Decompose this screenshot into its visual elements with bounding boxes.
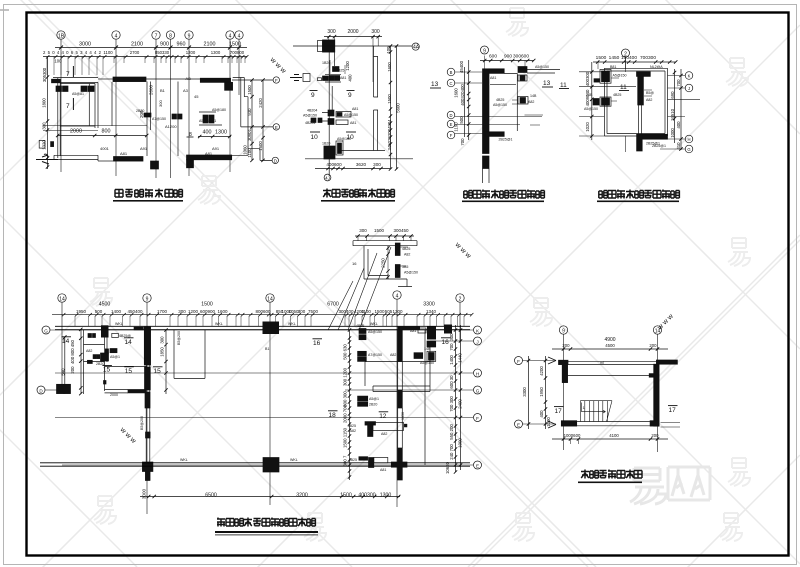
svg-text:K: K <box>688 74 691 79</box>
svg-text:300: 300 <box>158 100 163 107</box>
svg-text:D: D <box>449 113 452 118</box>
svg-text:A82: A82 <box>350 429 356 433</box>
dim line top D5 <box>52 314 472 316</box>
svg-text:14: 14 <box>655 328 661 334</box>
svg-text:2100: 2100 <box>131 42 143 48</box>
left wall D6 <box>562 364 567 382</box>
svg-text:400: 400 <box>348 74 353 82</box>
top-right step outline D1 <box>233 78 248 127</box>
right bubble col D4 <box>660 72 693 153</box>
label 14 right D5 <box>124 338 134 346</box>
svg-text:550 200: 550 200 <box>449 424 454 440</box>
svg-text:B1: B1 <box>160 88 166 93</box>
svg-text:A81: A81 <box>490 76 496 80</box>
svg-text:930: 930 <box>247 108 252 116</box>
svg-text:1440: 1440 <box>458 353 463 363</box>
bottom wall D6 <box>561 421 659 426</box>
svg-text:4: 4 <box>238 34 241 40</box>
svg-text:4B25: 4B25 <box>613 93 621 97</box>
left col blocks lower D5 <box>348 396 407 472</box>
C box D5det <box>364 246 390 279</box>
svg-text:1500: 1500 <box>247 85 252 95</box>
svg-text:WKL: WKL <box>215 322 223 326</box>
svg-text:WKL: WKL <box>370 322 378 326</box>
svg-text:10: 10 <box>311 134 319 141</box>
svg-text:400320400: 400320400 <box>460 84 465 106</box>
left bubbles D6 <box>515 357 557 429</box>
title: drawing 4 <box>597 190 679 203</box>
right room interior blocks D1 <box>172 108 226 125</box>
svg-text:4B25: 4B25 <box>349 458 357 462</box>
svg-text:6500: 6500 <box>205 493 217 499</box>
svg-text:1850: 1850 <box>160 347 165 357</box>
bottom dim D6 <box>552 433 668 444</box>
arrows at left wall D6 <box>548 357 556 428</box>
top-right blocks D3 <box>490 65 560 81</box>
svg-text:1400: 1400 <box>111 309 122 314</box>
svg-text:300: 300 <box>373 162 381 167</box>
svg-text:B1: B1 <box>265 347 269 351</box>
svg-text:11: 11 <box>620 84 627 91</box>
svg-text:4B25: 4B25 <box>402 247 410 251</box>
svg-text:A1200: A1200 <box>165 124 177 129</box>
svg-text:200: 200 <box>70 366 75 374</box>
row2 blocks D5 <box>358 347 436 365</box>
thin box D3 <box>490 73 517 131</box>
svg-text:400: 400 <box>676 121 681 129</box>
bottom line D2 <box>305 151 413 159</box>
left exterior wall D5 <box>81 330 84 394</box>
svg-text:1450: 1450 <box>609 55 620 61</box>
svg-text:A7@150: A7@150 <box>152 117 166 121</box>
label 10 right D2 <box>346 132 356 141</box>
mid block cluster D2 <box>303 107 358 125</box>
svg-text:2100: 2100 <box>204 42 216 48</box>
svg-text:E: E <box>450 122 453 127</box>
svg-text:A82: A82 <box>381 432 387 436</box>
svg-text:11: 11 <box>560 82 567 89</box>
svg-text:900: 900 <box>504 54 512 60</box>
svg-text:1500 1150: 1500 1150 <box>343 427 348 448</box>
svg-text:300 1200: 300 1200 <box>343 367 348 386</box>
axis bubbles top row D5 <box>58 291 464 303</box>
svg-text:4200: 4200 <box>539 366 544 376</box>
svg-text:6700: 6700 <box>327 302 339 308</box>
svg-text:G: G <box>687 147 690 152</box>
svg-text:4: 4 <box>229 34 232 40</box>
svg-text:1060: 1060 <box>243 145 248 155</box>
svg-text:900: 900 <box>160 42 169 48</box>
bottom dim labels D5 <box>140 488 400 499</box>
inner top line D6 <box>568 374 656 378</box>
right wall D6 <box>654 364 659 426</box>
dim stems D5 <box>75 316 464 327</box>
left dim col D3 <box>454 60 471 146</box>
detail columns D5det <box>395 243 418 278</box>
svg-text:700 300: 700 300 <box>449 396 454 412</box>
svg-text:B5@200: B5@200 <box>140 416 144 430</box>
right dim cols D5 <box>445 325 463 474</box>
inner thin box D5 <box>365 362 430 392</box>
left dim col D4 <box>585 62 594 140</box>
title: drawing 5 <box>215 518 318 536</box>
svg-text:4B25: 4B25 <box>336 69 344 73</box>
svg-text:A91: A91 <box>140 146 148 151</box>
svg-text:7: 7 <box>66 71 70 78</box>
left bubble row4 D5 <box>37 386 60 394</box>
svg-text:1500: 1500 <box>596 55 607 61</box>
left exterior wall D1 <box>58 78 60 158</box>
bottom-left thin outline D1 <box>54 155 98 161</box>
section mark 7 lower D1 <box>66 98 73 110</box>
svg-text:700: 700 <box>460 138 465 146</box>
svg-text:4500: 4500 <box>605 343 615 348</box>
right dim column D2 <box>386 44 401 170</box>
label 9 right D2 <box>347 91 355 100</box>
title: drawing 1 <box>113 189 183 202</box>
svg-text:1500: 1500 <box>201 302 213 308</box>
svg-text:300: 300 <box>178 309 186 314</box>
detail bottom step D5det <box>388 279 412 287</box>
right dim col D4 <box>670 69 683 151</box>
svg-text:13: 13 <box>431 81 439 88</box>
svg-text:A5@150: A5@150 <box>535 65 549 69</box>
svg-text:3300: 3300 <box>522 387 527 397</box>
svg-text:F: F <box>476 416 479 421</box>
svg-text:14: 14 <box>62 338 70 345</box>
svg-text:10620: 10620 <box>445 461 450 474</box>
svg-text:1950: 1950 <box>539 387 544 397</box>
svg-text:3620: 3620 <box>356 162 367 167</box>
title: drawing 3 <box>462 190 544 203</box>
svg-text:4: 4 <box>396 293 399 299</box>
svg-text:1600: 1600 <box>454 88 459 98</box>
svg-text:1600: 1600 <box>258 141 263 151</box>
right C-wall D2 <box>374 46 379 151</box>
svg-text:H: H <box>687 137 690 142</box>
top dim D4 <box>593 55 677 69</box>
svg-text:2B20: 2B20 <box>136 109 144 113</box>
svg-text:300: 300 <box>449 333 454 341</box>
svg-text:A81: A81 <box>205 151 213 156</box>
svg-text:WKL: WKL <box>115 322 123 326</box>
svg-text:9: 9 <box>483 48 486 54</box>
svg-text:3300: 3300 <box>423 302 435 308</box>
label 18 D5 <box>328 411 338 419</box>
svg-text:E: E <box>275 125 278 130</box>
central vertical wall right room D5 <box>391 330 407 481</box>
svg-text:2000: 2000 <box>110 393 118 397</box>
span dimension labels D1 <box>79 42 241 48</box>
svg-text:400 800 450: 400 800 450 <box>70 339 75 364</box>
svg-text:1200: 1200 <box>345 61 350 71</box>
bottom wall bar 2 D1 <box>187 151 232 168</box>
top long line D2 <box>293 45 412 47</box>
svg-text:14B: 14B <box>530 94 537 98</box>
svg-text:16510: 16510 <box>670 108 675 121</box>
svg-text:E: E <box>517 422 520 427</box>
top wall thick seg 1 D1 <box>98 77 146 82</box>
svg-text:1300: 1300 <box>215 130 227 136</box>
svg-text:2: 2 <box>459 296 462 302</box>
top bubble D3 <box>481 46 489 54</box>
svg-text:2400: 2400 <box>458 399 463 409</box>
svg-text:A81: A81 <box>350 121 356 125</box>
svg-text:9: 9 <box>146 296 149 302</box>
left room interior D5 <box>84 333 148 397</box>
top wall thick seg 2 D1 <box>146 76 233 91</box>
svg-text:G: G <box>476 388 480 393</box>
svg-text:700800: 700800 <box>230 50 245 55</box>
bottom wall bar 1 D1 <box>98 151 159 169</box>
svg-text:J: J <box>476 339 478 344</box>
svg-text:30901: 30901 <box>247 128 252 141</box>
title: drawing 2 <box>321 189 395 202</box>
top bubbles D6 <box>559 326 661 335</box>
section label 13 left D3 <box>430 81 441 88</box>
top-left wall + blocks D1 <box>52 78 99 97</box>
dimension line row 2 D1 <box>43 55 248 58</box>
svg-text:850330: 850330 <box>155 50 170 55</box>
svg-text:540: 540 <box>61 368 66 376</box>
svg-text:B: B <box>450 70 453 75</box>
svg-text:1500: 1500 <box>374 228 385 233</box>
svg-text:3000: 3000 <box>142 488 147 499</box>
detail dims D5det <box>359 228 409 233</box>
section label 11 left D4 <box>559 82 569 89</box>
svg-text:4100: 4100 <box>609 433 619 438</box>
svg-text:500 630: 500 630 <box>343 344 348 360</box>
svg-text:17: 17 <box>555 408 563 415</box>
svg-text:A82: A82 <box>404 253 410 257</box>
grid verticals D1 <box>61 40 239 179</box>
svg-text:9: 9 <box>311 92 315 99</box>
svg-text:1B20: 1B20 <box>322 142 330 146</box>
svg-text:700: 700 <box>449 343 454 351</box>
svg-text:A5@1 A81: A5@1 A81 <box>199 119 216 123</box>
svg-text:5600: 5600 <box>396 103 401 113</box>
section label 13 right D3 <box>542 80 553 87</box>
svg-text:1000600: 1000600 <box>564 433 581 438</box>
mid-right blocks D3 <box>493 94 537 107</box>
interior room box left D1 <box>60 82 112 128</box>
lower wall block D2 <box>322 137 351 159</box>
svg-text:500: 500 <box>459 116 464 124</box>
label 15 mid D5 <box>124 367 134 375</box>
svg-text:4B25: 4B25 <box>348 424 356 428</box>
section label 11 mid D4 <box>619 84 629 91</box>
svg-text:16: 16 <box>442 339 450 346</box>
svg-text:A5@150: A5@150 <box>584 107 598 111</box>
svg-text:410: 410 <box>676 142 681 150</box>
horizontal grid lines D5 <box>50 330 473 465</box>
svg-text:1500: 1500 <box>374 309 385 314</box>
svg-text:F: F <box>450 133 453 138</box>
svg-text:450400: 450400 <box>127 309 143 314</box>
svg-text:1200: 1200 <box>188 309 199 314</box>
bottom dim D2 <box>315 162 390 170</box>
svg-text:2600: 2600 <box>149 84 154 95</box>
svg-text:1020: 1020 <box>585 122 590 132</box>
svg-text:J: J <box>688 86 690 91</box>
svg-text:200: 200 <box>562 343 570 348</box>
svg-text:A5@150: A5@150 <box>404 271 418 275</box>
svg-text:300: 300 <box>359 228 367 233</box>
svg-text:1B: 1B <box>58 34 65 40</box>
inner left dim col D5 <box>343 328 352 480</box>
svg-text:A82: A82 <box>390 353 396 357</box>
svg-text:1100: 1100 <box>103 50 113 55</box>
svg-text:1300: 1300 <box>211 50 221 55</box>
svg-text:B5@200: B5@200 <box>177 331 181 345</box>
svg-text:4B204: 4B204 <box>307 109 317 113</box>
label 15 right D5 <box>153 367 163 375</box>
svg-text:3450203004504: 3450203004504 <box>387 119 392 151</box>
svg-text:1300: 1300 <box>392 309 403 314</box>
stair risers D6 <box>580 401 612 422</box>
svg-text:700300: 700300 <box>640 55 656 61</box>
top wall D6 <box>559 360 678 365</box>
svg-text:100: 100 <box>386 46 391 54</box>
svg-text:1000: 1000 <box>458 438 463 448</box>
svg-text:A5@150: A5@150 <box>368 330 382 334</box>
right bubbles D1 <box>232 77 279 164</box>
svg-text:A5@150: A5@150 <box>337 137 351 141</box>
svg-text:960: 960 <box>177 42 186 48</box>
plan box D4 <box>604 68 667 136</box>
right outline D1 <box>232 97 248 156</box>
svg-text:1600: 1600 <box>387 62 392 72</box>
svg-text:690: 690 <box>670 91 675 99</box>
svg-text:18: 18 <box>329 412 337 419</box>
inner dim col x166 D5 <box>160 328 168 394</box>
title: drawing 6 <box>578 470 642 484</box>
svg-text:A82: A82 <box>528 100 534 104</box>
svg-text:9: 9 <box>562 328 565 334</box>
svg-text:16: 16 <box>352 261 357 266</box>
svg-text:14: 14 <box>125 339 133 346</box>
svg-text:2700: 2700 <box>130 50 140 55</box>
svg-text:2000: 2000 <box>70 129 82 135</box>
svg-text:45: 45 <box>194 94 199 99</box>
svg-text:A5@150: A5@150 <box>493 103 507 107</box>
right room right wall D5 <box>425 330 430 465</box>
right leader lines D3 <box>525 115 544 125</box>
top dim D2 <box>324 29 382 82</box>
svg-text:1800: 1800 <box>42 98 47 108</box>
top wall black segs D5 <box>101 322 452 340</box>
center grid tick row mid D1 <box>43 126 147 131</box>
axis bubbles top row D1 <box>57 31 243 40</box>
span labels D5 <box>99 302 435 308</box>
svg-text:B5@: B5@ <box>646 91 654 95</box>
svg-text:1600: 1600 <box>217 309 228 314</box>
svg-text:7: 7 <box>66 103 70 110</box>
svg-text:A91: A91 <box>212 146 220 151</box>
svg-text:2B25@1: 2B25@1 <box>499 138 513 142</box>
top wall line D5 <box>55 326 470 329</box>
svg-text:4009040: 4009040 <box>585 89 590 106</box>
svg-text:400: 400 <box>539 410 544 418</box>
svg-text:600900: 600900 <box>200 309 216 314</box>
svg-text:1950: 1950 <box>76 309 87 314</box>
svg-text:1500: 1500 <box>387 94 392 104</box>
svg-text:H: H <box>476 371 479 376</box>
svg-text:4500: 4500 <box>99 302 111 308</box>
svg-text:100400: 100400 <box>621 55 637 61</box>
svg-text:14: 14 <box>267 296 273 302</box>
grid verticals D6 <box>564 334 658 452</box>
svg-text:300: 300 <box>298 309 306 314</box>
svg-text:7500: 7500 <box>308 309 319 314</box>
svg-text:2420: 2420 <box>258 98 263 108</box>
svg-text:WKL: WKL <box>288 322 296 326</box>
rotated dims near wall D2 <box>345 61 353 82</box>
svg-text:A5@81: A5@81 <box>72 92 84 96</box>
svg-text:3000: 3000 <box>79 42 91 48</box>
svg-text:A82: A82 <box>646 98 652 102</box>
svg-text:4B25@: 4B25@ <box>119 334 131 338</box>
svg-text:14B: 14B <box>586 93 593 97</box>
svg-text:2B25@1: 2B25@1 <box>652 144 666 148</box>
svg-text:15: 15 <box>103 367 111 374</box>
left bubble row1 D5 <box>42 326 50 334</box>
grid crosses D4 <box>579 57 700 152</box>
svg-text:9: 9 <box>348 92 352 99</box>
wall labels on top wall D5 <box>115 322 378 326</box>
svg-text:4: 4 <box>115 34 118 40</box>
corner fold tick <box>0 9 9 11</box>
right bubble col D5 <box>474 326 482 469</box>
svg-text:400300: 400300 <box>585 71 590 86</box>
svg-text:300450: 300450 <box>393 228 409 233</box>
label 14 left D5 <box>62 337 72 345</box>
top dim D3 <box>480 54 535 71</box>
top right bubble D2 <box>412 43 420 50</box>
svg-text:300: 300 <box>371 29 380 35</box>
left blocks D4 <box>584 70 627 112</box>
svg-text:A5@1: A5@1 <box>110 355 120 359</box>
top bubble D4 <box>622 49 630 57</box>
watermark small diagonal url text <box>118 56 676 446</box>
svg-text:13: 13 <box>543 80 551 87</box>
svg-text:A81: A81 <box>380 468 386 472</box>
top blocks pair left D5 <box>356 324 382 340</box>
bottom-right step outline D1 <box>248 149 260 161</box>
svg-text:305300: 305300 <box>42 67 47 82</box>
svg-text:ml: ml <box>600 361 604 365</box>
svg-text:A5@150: A5@150 <box>344 113 358 117</box>
left section cut upper D2 <box>290 74 310 82</box>
svg-text:12: 12 <box>379 413 387 420</box>
main vertical wall D2 <box>329 52 334 176</box>
svg-text:500: 500 <box>95 309 103 314</box>
svg-text:300: 300 <box>327 29 336 35</box>
T wall D4 <box>637 72 655 135</box>
svg-text:800 300: 800 300 <box>343 391 348 407</box>
label 16 left D5 <box>313 339 323 347</box>
svg-text:2000: 2000 <box>347 29 358 35</box>
left dim col D6 <box>522 356 551 429</box>
svg-text:A3: A3 <box>183 88 189 93</box>
svg-text:WKL: WKL <box>290 458 298 462</box>
svg-text:3200: 3200 <box>296 493 308 499</box>
svg-text:200: 200 <box>651 433 659 438</box>
svg-text:1000: 1000 <box>670 128 675 138</box>
mid interior verticals D1 <box>177 82 179 157</box>
svg-text:800: 800 <box>102 129 111 135</box>
svg-text:B81: B81 <box>610 65 616 69</box>
